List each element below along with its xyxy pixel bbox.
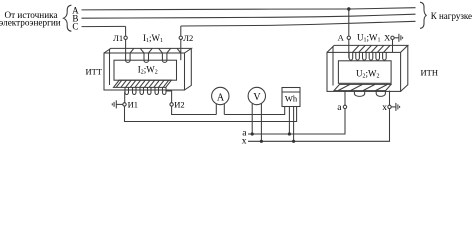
svg-text:Л1: Л1	[113, 33, 123, 43]
svg-text:U1;W1: U1;W1	[357, 32, 381, 43]
svg-text:Wh: Wh	[285, 94, 298, 104]
svg-text:Л2: Л2	[183, 33, 193, 43]
svg-text:И1: И1	[128, 99, 138, 109]
svg-text:А: А	[338, 32, 345, 42]
svg-text:A: A	[217, 92, 225, 103]
svg-text:К нагрузке: К нагрузке	[431, 11, 472, 21]
svg-text:U2;W2: U2;W2	[356, 69, 380, 80]
svg-text:I1;W1: I1;W1	[143, 33, 163, 44]
svg-text:a: a	[337, 103, 342, 113]
svg-text:x: x	[242, 136, 247, 146]
svg-text:ИТН: ИТН	[421, 68, 438, 78]
svg-text:X: X	[384, 32, 390, 42]
svg-text:ИТТ: ИТТ	[85, 67, 102, 77]
svg-text:электроэнергии: электроэнергии	[0, 18, 61, 28]
svg-text:x: x	[382, 103, 387, 113]
svg-text:V: V	[253, 92, 261, 103]
svg-text:С: С	[72, 21, 78, 31]
svg-text:И2: И2	[174, 99, 184, 109]
svg-text:I2;W2: I2;W2	[138, 64, 158, 75]
